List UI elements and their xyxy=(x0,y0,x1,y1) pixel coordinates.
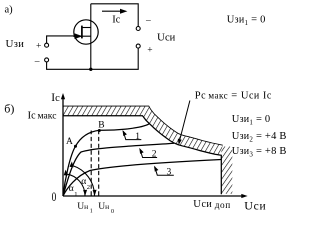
svg-text:Iс: Iс xyxy=(51,92,60,104)
svg-text:а): а) xyxy=(5,5,14,16)
svg-text:1: 1 xyxy=(135,132,140,142)
terminal lower-right xyxy=(136,44,140,48)
svg-text:В: В xyxy=(98,120,104,130)
leader line Pc max xyxy=(180,101,190,141)
svg-text:Uзи2 = +4 В: Uзи2 = +4 В xyxy=(232,131,287,144)
svg-text:–: – xyxy=(34,56,40,66)
hatch band right SOA xyxy=(221,147,232,194)
svg-text:3: 3 xyxy=(167,167,172,177)
line Ic max boundary xyxy=(63,116,221,195)
svg-text:1: 1 xyxy=(74,191,77,198)
hatch band top SOA xyxy=(63,106,143,116)
point B marker xyxy=(98,129,101,132)
svg-text:2: 2 xyxy=(87,184,90,191)
svg-text:Uси доп: Uси доп xyxy=(193,199,230,211)
curve 2 output characteristic xyxy=(63,143,174,196)
wire bottom xyxy=(47,48,139,69)
axis Y Ic xyxy=(62,97,64,197)
svg-text:б): б) xyxy=(4,102,14,116)
curve 1 output characteristic xyxy=(63,124,150,196)
svg-text:0: 0 xyxy=(52,191,57,205)
flag 3 xyxy=(155,167,174,175)
flag 2 xyxy=(140,149,157,157)
svg-text:Uн: Uн xyxy=(77,202,88,212)
svg-text:+: + xyxy=(36,41,41,51)
svg-text:Uси: Uси xyxy=(244,199,266,213)
wire top drain xyxy=(91,4,138,27)
line hatch top edge xyxy=(63,106,223,145)
current arrow Ic xyxy=(102,10,123,12)
node source junction xyxy=(89,68,92,71)
svg-text:Pс макс = Uси Iс: Pс макс = Uси Iс xyxy=(195,91,272,102)
dashed line Un0 xyxy=(98,131,100,196)
svg-text:Uзи1 = 0: Uзи1 = 0 xyxy=(227,14,266,27)
wire gate xyxy=(47,36,77,43)
svg-text:–: – xyxy=(145,16,151,26)
svg-text:Uзи: Uзи xyxy=(6,38,25,50)
terminal upper-right xyxy=(136,27,140,31)
svg-text:Uзи3 = +8 В: Uзи3 = +8 В xyxy=(232,146,287,159)
svg-text:Iс: Iс xyxy=(112,15,121,26)
svg-text:Uзи1 = 0: Uзи1 = 0 xyxy=(232,114,271,127)
arc alpha2 xyxy=(73,166,95,196)
flag 1 xyxy=(123,131,141,139)
hatch band hyperbola SOA xyxy=(143,106,223,155)
svg-text:0: 0 xyxy=(111,209,114,215)
svg-text:α: α xyxy=(81,177,86,187)
terminal upper-left xyxy=(45,43,49,47)
svg-text:+: + xyxy=(147,45,152,55)
dashed line Un1 xyxy=(90,131,92,196)
svg-text:1: 1 xyxy=(90,208,93,214)
svg-text:Iс макс: Iс макс xyxy=(28,109,57,121)
axis X Usi xyxy=(63,195,244,197)
curve 3 output characteristic xyxy=(63,160,221,197)
svg-text:A: A xyxy=(66,137,73,147)
svg-text:α: α xyxy=(69,184,74,194)
point A marker xyxy=(74,145,77,148)
terminal lower-left xyxy=(45,58,49,62)
svg-text:2: 2 xyxy=(152,150,157,160)
transistor VT1 xyxy=(73,4,98,70)
svg-text:Uн: Uн xyxy=(98,202,109,212)
arc alpha1 xyxy=(66,174,85,196)
svg-text:Uси: Uси xyxy=(157,32,176,44)
